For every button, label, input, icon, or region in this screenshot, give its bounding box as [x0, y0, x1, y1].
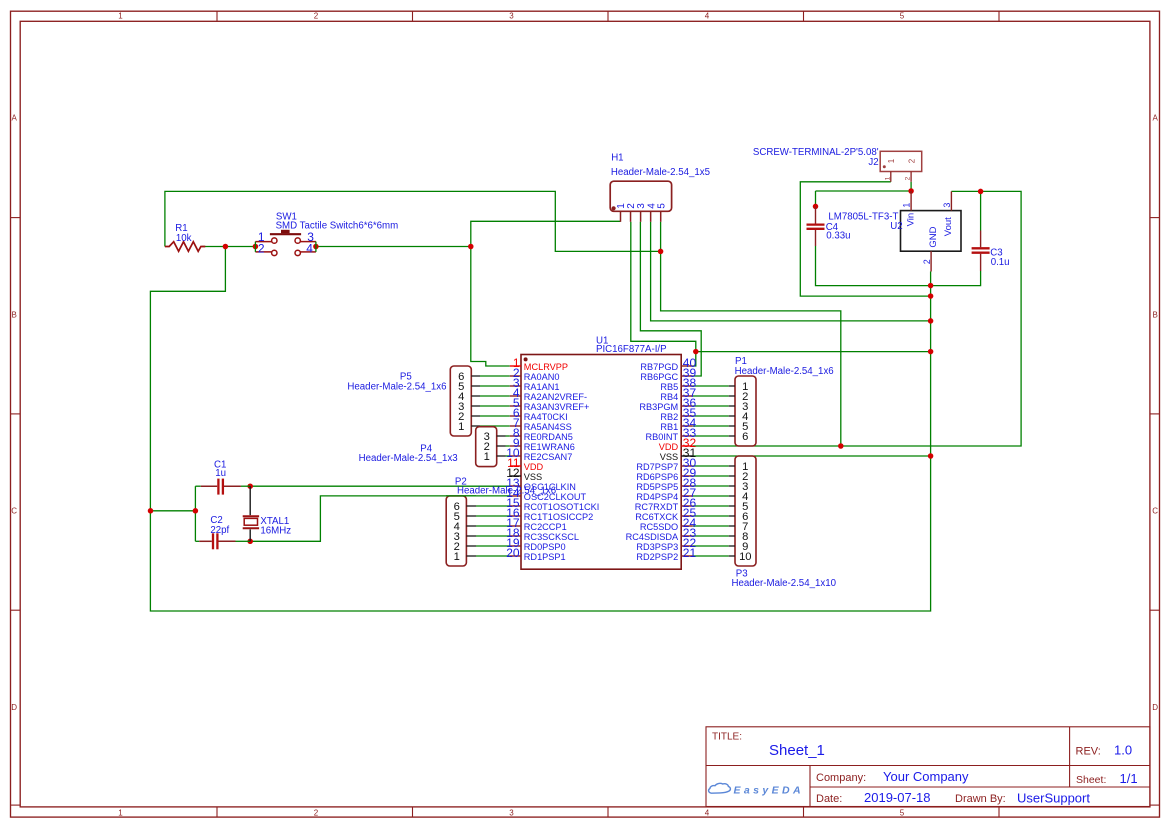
svg-text:Header-Male-2.54_1x10: Header-Male-2.54_1x10	[732, 578, 837, 589]
svg-text:21: 21	[683, 546, 697, 560]
svg-text:1: 1	[118, 12, 123, 21]
header H1	[610, 153, 710, 222]
svg-text:3: 3	[942, 203, 952, 208]
svg-text:UserSupport: UserSupport	[1017, 791, 1090, 806]
svg-text:RC3SCKSCL: RC3SCKSCL	[524, 532, 579, 542]
svg-text:1: 1	[458, 421, 464, 433]
svg-text:TITLE:: TITLE:	[712, 732, 742, 743]
svg-text:RD7PSP7: RD7PSP7	[636, 462, 678, 472]
svg-text:RB4: RB4	[660, 392, 678, 402]
header P1	[729, 356, 834, 446]
svg-text:16MHz: 16MHz	[260, 526, 291, 537]
svg-text:RB7PGD: RB7PGD	[640, 362, 678, 372]
EasyEDA logo	[709, 783, 804, 796]
svg-text:0.1u: 0.1u	[991, 257, 1010, 268]
wire OSC2 net over P2 box edge	[446, 495, 476, 497]
svg-text:GND: GND	[928, 226, 939, 247]
svg-text:RB5: RB5	[660, 382, 678, 392]
svg-text:C: C	[1152, 507, 1158, 516]
svg-text:1u: 1u	[215, 468, 226, 479]
svg-text:D: D	[1152, 703, 1158, 712]
wire PGD branch right	[696, 351, 931, 353]
wire GND branch to C1/C2	[150, 510, 195, 512]
wire C3 top	[980, 191, 982, 230]
svg-text:RC7RXDT: RC7RXDT	[635, 502, 679, 512]
svg-text:Header-Male-2.54_1x6: Header-Male-2.54_1x6	[347, 382, 446, 393]
svg-text:2: 2	[258, 241, 265, 255]
svg-text:RA2AN2VREF-: RA2AN2VREF-	[524, 392, 587, 402]
wires P1 to U1 pins 38-33	[693, 386, 729, 436]
svg-text:Sheet_1: Sheet_1	[769, 742, 825, 759]
wire GND: U1 pin31 VSS	[693, 455, 931, 457]
svg-text:1: 1	[887, 158, 896, 163]
svg-text:VDD: VDD	[659, 442, 679, 452]
svg-text:Header-Male-2.54_1x6: Header-Male-2.54_1x6	[457, 485, 556, 496]
svg-text:0.33u: 0.33u	[826, 231, 850, 242]
svg-text:Header-Male-2.54_1x6: Header-Male-2.54_1x6	[735, 366, 834, 377]
wires P3 to U1 pins 30-21	[693, 466, 729, 556]
svg-text:RE2CSAN7: RE2CSAN7	[524, 452, 573, 462]
svg-text:RA5AN4SS: RA5AN4SS	[524, 422, 572, 432]
svg-text:4: 4	[705, 808, 710, 817]
svg-text:D: D	[11, 703, 17, 712]
svg-text:REV:: REV:	[1076, 745, 1101, 757]
wires P2 to U1 pins 15-20	[476, 506, 510, 556]
svg-text:RB2: RB2	[660, 412, 678, 422]
svg-text:3: 3	[509, 12, 514, 21]
screw terminal J2	[753, 147, 922, 182]
wires P4 to U1 pins 8-10	[506, 436, 510, 456]
svg-text:RC5SDO: RC5SDO	[640, 522, 678, 532]
svg-text:1: 1	[118, 808, 123, 817]
svg-text:RB0INT: RB0INT	[646, 432, 679, 442]
svg-text:2: 2	[905, 176, 912, 180]
svg-text:RD6PSP6: RD6PSP6	[636, 472, 678, 482]
svg-text:RC6TXCK: RC6TXCK	[635, 512, 679, 522]
svg-text:20: 20	[506, 546, 520, 560]
svg-text:1/1: 1/1	[1120, 771, 1138, 786]
capacitor C1	[195, 460, 250, 495]
svg-text:Date:: Date:	[816, 793, 842, 805]
switch SW1	[255, 212, 398, 256]
svg-text:1: 1	[484, 451, 490, 463]
svg-text:RC4SDISDA: RC4SDISDA	[626, 532, 679, 542]
svg-text:RD1PSP1: RD1PSP1	[524, 552, 566, 562]
svg-text:A: A	[12, 114, 18, 123]
svg-text:5: 5	[900, 12, 905, 21]
svg-text:2: 2	[922, 259, 932, 264]
resistor R1	[165, 223, 205, 251]
svg-text:H1: H1	[611, 153, 623, 164]
svg-text:Header-Male-2.54_1x3: Header-Male-2.54_1x3	[359, 453, 458, 464]
svg-text:5: 5	[656, 203, 667, 209]
svg-text:SMD Tactile Switch6*6*6mm: SMD Tactile Switch6*6*6mm	[276, 220, 399, 231]
svg-text:4: 4	[705, 12, 710, 21]
svg-text:RD0PSP0: RD0PSP0	[524, 542, 566, 552]
svg-text:5: 5	[900, 808, 905, 817]
svg-text:RC2CCP1: RC2CCP1	[524, 522, 567, 532]
svg-text:VDD: VDD	[524, 462, 544, 472]
wire OSC2 net: XTAL to U1 pin14	[250, 496, 510, 541]
wire GND net: R1/SW1 node down left and bottom rail	[202, 246, 255, 248]
svg-text:1: 1	[454, 551, 460, 563]
svg-text:RC1T1OSICCP2: RC1T1OSICCP2	[524, 512, 593, 522]
svg-text:Sheet:: Sheet:	[1076, 774, 1106, 786]
svg-text:RD2PSP2: RD2PSP2	[636, 552, 678, 562]
svg-text:MCLRVPP: MCLRVPP	[524, 362, 568, 372]
capacitor C3	[972, 231, 1010, 272]
header P3	[729, 456, 837, 589]
wire VDD net: H1 pin5 down to VDD rail	[661, 222, 841, 446]
svg-text:RD4PSP4: RD4PSP4	[636, 492, 678, 502]
IC U1 PIC16F877A	[506, 336, 696, 570]
svg-text:Company:: Company:	[816, 772, 866, 784]
svg-text:1: 1	[902, 203, 912, 208]
svg-text:Vout: Vout	[943, 217, 954, 236]
svg-text:22pf: 22pf	[210, 525, 229, 536]
wire VDD rail: U1 pin32 to 7805 Vout	[693, 191, 1021, 446]
svg-text:RE1WRAN6: RE1WRAN6	[524, 442, 575, 452]
svg-text:1: 1	[884, 176, 891, 180]
wire MCLR net: SW1 to U1 pin1 and H1 pin1	[316, 246, 471, 248]
wire GND: J2 pin1 loop	[800, 182, 930, 296]
svg-text:RB6PGC: RB6PGC	[640, 372, 678, 382]
svg-text:LM7805L-TF3-T: LM7805L-TF3-T	[828, 212, 898, 223]
svg-text:10k: 10k	[176, 233, 192, 244]
svg-text:RD3PSP3: RD3PSP3	[636, 542, 678, 552]
svg-text:Drawn By:: Drawn By:	[955, 793, 1006, 805]
svg-text:B: B	[1153, 310, 1158, 319]
wire Vin net: J2 pin2 to 7805 Vin and C4	[910, 182, 912, 191]
svg-text:Header-Male-2.54_1x5: Header-Male-2.54_1x5	[611, 167, 710, 178]
wire PGC net: H1 pin3 to U1 pin39	[640, 222, 701, 376]
svg-text:1.0: 1.0	[1114, 743, 1132, 758]
header P4	[359, 427, 506, 467]
svg-text:RA3AN3VREF+: RA3AN3VREF+	[524, 402, 590, 412]
svg-text:PIC16F877A-I/P: PIC16F877A-I/P	[596, 344, 667, 355]
svg-text:10: 10	[739, 551, 751, 563]
capacitor C4	[807, 206, 851, 246]
svg-text:6: 6	[742, 431, 748, 443]
svg-text:4: 4	[306, 241, 313, 255]
header P5	[347, 366, 480, 436]
header P2	[446, 477, 556, 566]
crystal XTAL1	[243, 486, 292, 541]
svg-text:Your Company: Your Company	[883, 769, 969, 784]
svg-text:VSS: VSS	[660, 452, 678, 462]
svg-text:RA0AN0: RA0AN0	[524, 372, 560, 382]
svg-text:2: 2	[314, 808, 319, 817]
svg-text:A: A	[1153, 114, 1159, 123]
wire GND rail: C4- to C3-	[816, 246, 981, 286]
svg-text:Vin: Vin	[906, 213, 917, 227]
svg-text:B: B	[12, 310, 17, 319]
svg-text:RD5PSP5: RD5PSP5	[636, 482, 678, 492]
svg-text:RB3PGM: RB3PGM	[639, 402, 678, 412]
wire OSC1 net: XTAL to U1 pin13	[250, 485, 510, 487]
svg-text:2: 2	[907, 158, 916, 163]
wire GND: H1 pin4	[651, 222, 931, 321]
svg-text:EasyEDA: EasyEDA	[734, 784, 805, 796]
svg-text:2019-07-18: 2019-07-18	[864, 790, 931, 805]
svg-text:VSS: VSS	[524, 472, 542, 482]
svg-text:RA1AN1: RA1AN1	[524, 382, 560, 392]
wire PGD net: H1 pin2 to U1 pin40	[631, 222, 696, 366]
regulator U2 LM7805	[828, 191, 961, 272]
svg-text:RA4T0CKI: RA4T0CKI	[524, 412, 568, 422]
wire VDD net: R1 top loop to H1 pin5	[165, 191, 661, 251]
svg-text:RC0T1OSOT1CKI: RC0T1OSOT1CKI	[524, 502, 600, 512]
svg-text:3: 3	[509, 808, 514, 817]
capacitor C2	[195, 515, 250, 549]
svg-text:RE0RDAN5: RE0RDAN5	[524, 432, 573, 442]
wires P5 to U1 pins 2-7	[480, 376, 510, 426]
title block	[706, 727, 1150, 807]
svg-text:C: C	[11, 507, 17, 516]
svg-text:RB1: RB1	[660, 422, 678, 432]
svg-text:2: 2	[314, 12, 319, 21]
svg-text:U2: U2	[890, 221, 902, 232]
svg-text:J2: J2	[868, 157, 878, 168]
svg-text:SCREW-TERMINAL-2P'5.08': SCREW-TERMINAL-2P'5.08'	[753, 147, 879, 158]
